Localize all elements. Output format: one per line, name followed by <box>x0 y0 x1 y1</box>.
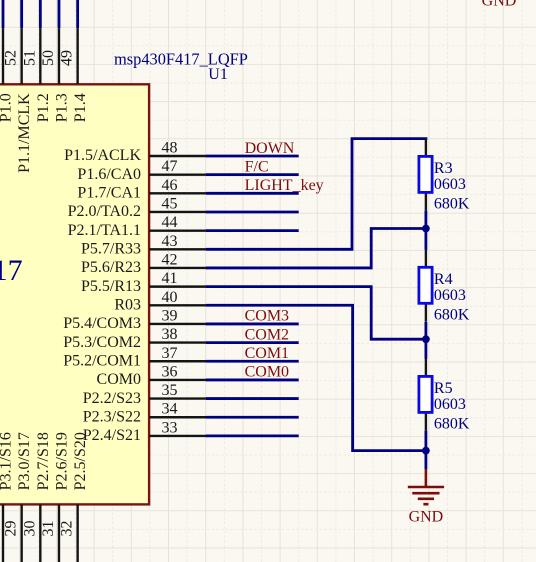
svg-text:F/C: F/C <box>245 158 269 175</box>
wire pin 47 stub <box>206 173 299 176</box>
svg-text:P3.1/S16: P3.1/S16 <box>0 432 15 490</box>
svg-text:33: 33 <box>162 419 178 436</box>
wire pin 37 stub <box>206 360 299 363</box>
svg-text:47: 47 <box>162 158 178 175</box>
wire pin 44 stub <box>206 229 299 232</box>
junction node <box>422 335 430 343</box>
pin 34 P2.3/S22 (right) <box>83 401 207 426</box>
svg-text:P5.6/R23: P5.6/R23 <box>81 259 141 276</box>
svg-text:40: 40 <box>162 289 178 306</box>
svg-text:COM3: COM3 <box>245 308 289 325</box>
svg-text:50: 50 <box>40 50 57 66</box>
pin 39 P5.4/COM3 (right) <box>63 307 206 332</box>
svg-text:P5.7/R33: P5.7/R33 <box>81 241 141 258</box>
svg-text:COM2: COM2 <box>245 326 289 343</box>
pin 51 P1.2 (top) <box>21 0 52 122</box>
wire R5 bottom to node <box>424 431 427 451</box>
svg-text:P2.3/S22: P2.3/S22 <box>83 408 141 425</box>
pin 33 P2.4/S21 (right) <box>83 419 207 444</box>
svg-text:COM0: COM0 <box>97 371 141 388</box>
svg-text:DOWN: DOWN <box>245 140 295 157</box>
svg-text:R5: R5 <box>434 380 453 397</box>
svg-text:48: 48 <box>162 140 178 157</box>
svg-text:P5.2/COM1: P5.2/COM1 <box>63 352 141 369</box>
svg-text:R03: R03 <box>114 296 141 313</box>
ground GND <box>408 469 444 525</box>
svg-text:P1.6/CA0: P1.6/CA0 <box>77 166 141 183</box>
svg-text:P2.4/S21: P2.4/S21 <box>83 427 141 444</box>
pin 44 P2.1/TA1.1 (right) <box>68 214 207 239</box>
svg-text:29: 29 <box>3 521 20 537</box>
svg-text:35: 35 <box>162 382 178 399</box>
svg-text:44: 44 <box>162 214 178 231</box>
svg-text:30: 30 <box>21 521 38 537</box>
pin 30 P2.7/S18 (bottom) <box>21 432 52 562</box>
pin 46 P1.7/CA1 (right) <box>77 177 206 202</box>
svg-text:52: 52 <box>3 50 20 66</box>
pin 43 P5.7/R33 (right) <box>81 233 207 258</box>
svg-text:P1.4: P1.4 <box>72 93 89 122</box>
svg-text:32: 32 <box>59 521 76 537</box>
pin 52 P1.1/MCLK (top) <box>3 0 34 173</box>
wire node to ground <box>424 451 427 469</box>
svg-text:38: 38 <box>162 326 178 343</box>
svg-text:P2.2/S23: P2.2/S23 <box>83 390 141 407</box>
svg-text:34: 34 <box>162 401 178 418</box>
pin 29 P3.0/S17 (bottom) <box>3 432 34 562</box>
svg-text:P5.5/R13: P5.5/R13 <box>81 278 141 295</box>
svg-text:42: 42 <box>162 251 178 268</box>
svg-text:P5.3/COM2: P5.3/COM2 <box>63 334 141 351</box>
svg-text:GND: GND <box>409 508 444 525</box>
wire R4 bottom to node <box>424 322 427 340</box>
IC U1 msp430F417_LQFP body <box>0 84 149 504</box>
wire pin 40 R03 to node R5/GND <box>206 305 426 450</box>
svg-text:R4: R4 <box>434 271 453 288</box>
wire pin 33 stub <box>206 434 299 437</box>
wire node to R4 top <box>424 229 427 250</box>
svg-text:P2.6/S19: P2.6/S19 <box>53 432 70 490</box>
wire pin 34 stub <box>206 416 299 419</box>
pin 38 P5.3/COM2 (right) <box>63 326 206 351</box>
pin 48 P1.5/ACLK (right) <box>64 140 207 165</box>
svg-text:LIGHT_key: LIGHT_key <box>245 177 324 194</box>
svg-text:P1.7/CA1: P1.7/CA1 <box>77 185 141 202</box>
wire pin 46 stub <box>206 192 299 195</box>
wire pin 41 P5.5/R13 to node R4/R5 <box>206 287 426 340</box>
resistor R4 0603 680K <box>419 249 470 323</box>
svg-text:53: 53 <box>0 50 1 66</box>
svg-text:51: 51 <box>21 50 38 66</box>
svg-text:680K: 680K <box>434 195 470 212</box>
svg-text:46: 46 <box>162 177 178 194</box>
wire pin 45 stub <box>206 211 299 214</box>
svg-text:P1.2: P1.2 <box>35 93 52 122</box>
svg-text:P2.1/TA1.1: P2.1/TA1.1 <box>68 222 141 239</box>
svg-text:36: 36 <box>162 363 178 380</box>
svg-text:28: 28 <box>0 521 1 537</box>
junction node <box>422 447 430 455</box>
svg-text:49: 49 <box>59 50 76 66</box>
pin 50 P1.3 (top) <box>40 0 71 122</box>
svg-text:P1.1/MCLK: P1.1/MCLK <box>16 93 33 173</box>
svg-text:GND: GND <box>482 0 517 10</box>
pin 47 P1.6/CA0 (right) <box>77 158 206 183</box>
wire pin 48 stub <box>206 155 299 158</box>
svg-text:39: 39 <box>162 307 178 324</box>
svg-text:37: 37 <box>162 345 178 362</box>
wire R3 bottom to node <box>424 211 427 229</box>
svg-text:0603: 0603 <box>434 396 466 413</box>
svg-text:P5.4/COM3: P5.4/COM3 <box>63 315 141 332</box>
pin 49 P1.4 (top) <box>59 0 90 122</box>
pin 36 COM0 (right) <box>97 363 207 388</box>
svg-text:680K: 680K <box>434 306 470 323</box>
wire pin 36 stub <box>206 379 299 382</box>
svg-text:0603: 0603 <box>434 176 466 193</box>
svg-text:41: 41 <box>162 270 178 287</box>
svg-text:COM0: COM0 <box>245 364 289 381</box>
pin 35 P2.2/S23 (right) <box>83 382 207 407</box>
svg-text:417: 417 <box>0 254 23 287</box>
pin 45 P2.0/TA0.2 (right) <box>68 195 207 220</box>
svg-text:P2.7/S18: P2.7/S18 <box>35 432 52 490</box>
svg-text:P1.5/ACLK: P1.5/ACLK <box>64 147 141 164</box>
svg-text:R3: R3 <box>434 160 453 177</box>
junction node <box>422 225 430 233</box>
resistor R3 0603 680K <box>419 138 470 212</box>
svg-text:680K: 680K <box>434 415 470 432</box>
svg-text:P1.3: P1.3 <box>53 93 70 122</box>
pin 41 P5.5/R13 (right) <box>81 270 207 295</box>
svg-text:45: 45 <box>162 195 178 212</box>
svg-text:43: 43 <box>162 233 178 250</box>
svg-text:P1.0: P1.0 <box>0 93 15 122</box>
pin 37 P5.2/COM1 (right) <box>63 345 206 370</box>
wire pin 42 P5.6/R23 to node R3/R4 <box>206 229 426 268</box>
pin 53 P1.0 (top) <box>0 0 15 122</box>
svg-text:U1: U1 <box>208 66 228 83</box>
svg-text:COM1: COM1 <box>245 345 289 362</box>
pin 40 R03 (right) <box>114 289 206 314</box>
pin 42 P5.6/R23 (right) <box>81 251 207 276</box>
svg-text:P2.0/TA0.2: P2.0/TA0.2 <box>68 203 141 220</box>
wire pin 38 stub <box>206 341 299 344</box>
svg-text:31: 31 <box>40 521 57 537</box>
resistor R5 0603 680K <box>419 358 470 432</box>
wire pin 39 stub <box>206 323 299 326</box>
svg-text:P3.0/S17: P3.0/S17 <box>16 432 33 490</box>
pin 28 P3.1/S16 (bottom) <box>0 432 15 562</box>
pin 31 P2.6/S19 (bottom) <box>40 432 71 562</box>
wire pin 43 P5.7/R33 to R3 top <box>206 139 427 250</box>
wire node to R5 top <box>424 339 427 359</box>
svg-text:0603: 0603 <box>434 287 466 304</box>
wire pin 35 stub <box>206 397 299 400</box>
pin 32 P2.5/S20 (bottom) <box>59 432 90 562</box>
